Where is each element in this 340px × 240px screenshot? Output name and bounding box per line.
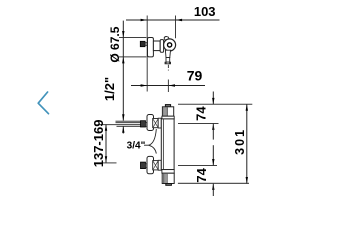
spout upper tube [165, 50, 170, 57]
top union collar [146, 122, 148, 126]
valve neck [160, 40, 163, 53]
bottom union nut [141, 162, 146, 169]
leader 3/4in stem [144, 144, 149, 146]
body bottom knob [166, 184, 172, 186]
dim 74 top lower arrow [212, 124, 214, 130]
svg-text:79: 79 [187, 68, 203, 84]
mixer body inner line [162, 119, 164, 170]
inlet pipe second line [116, 122, 141, 124]
body top knob [165, 105, 170, 107]
bottom connector boss [158, 160, 161, 170]
dim 74 bottom upper arrow [212, 159, 214, 165]
dim 74 bottom lower arrow [212, 184, 214, 190]
dim 79 line [131, 85, 205, 87]
dim 103 left arrow [141, 19, 147, 21]
dim 67.5 / 1-2in dimension line [122, 21, 124, 121]
svg-text:1/2": 1/2" [102, 77, 117, 101]
spout outlet foot [165, 62, 171, 64]
top connector hatch [153, 119, 158, 127]
wall plate [148, 38, 154, 57]
valve right extension line [175, 16, 177, 39]
bottom escutcheon [147, 156, 154, 173]
dim 1/2in top arrow [122, 114, 124, 120]
dim 137-169 bottom extension tick [102, 162, 117, 164]
shaft [153, 41, 160, 51]
leader 3/4in lower arc [149, 145, 157, 153]
top union nut [141, 121, 146, 127]
inlet pipe bottom line [117, 125, 141, 127]
right extension line upper middle [178, 123, 219, 125]
carousel prev chevron [38, 92, 48, 114]
top connector boss [158, 118, 161, 128]
dim 301 top arrow [246, 104, 248, 110]
bottom connector hatch [153, 161, 158, 169]
valve hub circle [168, 43, 172, 47]
knob stem [145, 43, 148, 46]
dim 137-169 top arrow [105, 124, 107, 130]
dim 67.5 top arrow [122, 31, 124, 37]
spout lower tube [166, 58, 170, 63]
dim 137-169 bottom arrow [105, 156, 107, 162]
body bottom cap hatch [164, 174, 168, 183]
dim 103 line [126, 19, 220, 21]
valve lever tab [164, 37, 169, 41]
right extension line bottom [178, 182, 249, 184]
body top band [162, 116, 174, 119]
inlet pipe top line [116, 120, 141, 122]
mixer body [161, 119, 174, 170]
dim 79 right arrow [169, 84, 175, 86]
svg-text:74: 74 [194, 106, 209, 121]
wall extension line [146, 16, 148, 92]
inlet pipe axis extension line [100, 124, 141, 126]
dim 103 right arrow [176, 19, 182, 21]
body top cap [162, 107, 173, 116]
top connector piece [153, 119, 159, 128]
svg-text:Ø 67.5: Ø 67.5 [108, 26, 122, 62]
bottom connector piece [153, 161, 159, 170]
handle knob [140, 41, 145, 46]
dim 67.5 extension ticks [119, 37, 146, 39]
leader 3/4in upper arc [149, 129, 157, 145]
dim 301 dimension line [246, 104, 248, 183]
body bottom band [162, 170, 174, 174]
spout foot nubs [165, 62, 167, 64]
right extension line top [178, 103, 252, 105]
valve body circle [164, 39, 176, 51]
dim 74 top tail [212, 92, 214, 105]
dim 1/2in bottom arrow [122, 126, 124, 132]
dim 79 left arrow [141, 84, 147, 86]
right extension line lower middle [178, 165, 217, 167]
dim 137-169 dimension line [105, 125, 107, 163]
svg-text:103: 103 [194, 4, 216, 19]
spout center dash [167, 65, 169, 71]
spout center extension line [167, 80, 169, 93]
svg-text:301: 301 [233, 128, 247, 155]
body top cap hatch [164, 107, 168, 116]
dim 67.5 bottom arrow [122, 57, 124, 63]
svg-text:137-169: 137-169 [91, 120, 106, 168]
dim 74 top upper arrow [212, 98, 214, 104]
bottom union collar [146, 164, 148, 168]
top escutcheon [147, 115, 154, 131]
dim 74 bottom lower tail [212, 184, 214, 197]
svg-text:3/4": 3/4" [127, 141, 146, 152]
dim 301 bottom arrow [246, 177, 248, 183]
body bottom cap [162, 173, 174, 183]
dim 74 top lower tail [212, 124, 214, 140]
dim 1/2in bottom arrow line [122, 126, 124, 133]
svg-text:74: 74 [194, 167, 209, 182]
dim 74 bottom upper tail [212, 145, 214, 165]
